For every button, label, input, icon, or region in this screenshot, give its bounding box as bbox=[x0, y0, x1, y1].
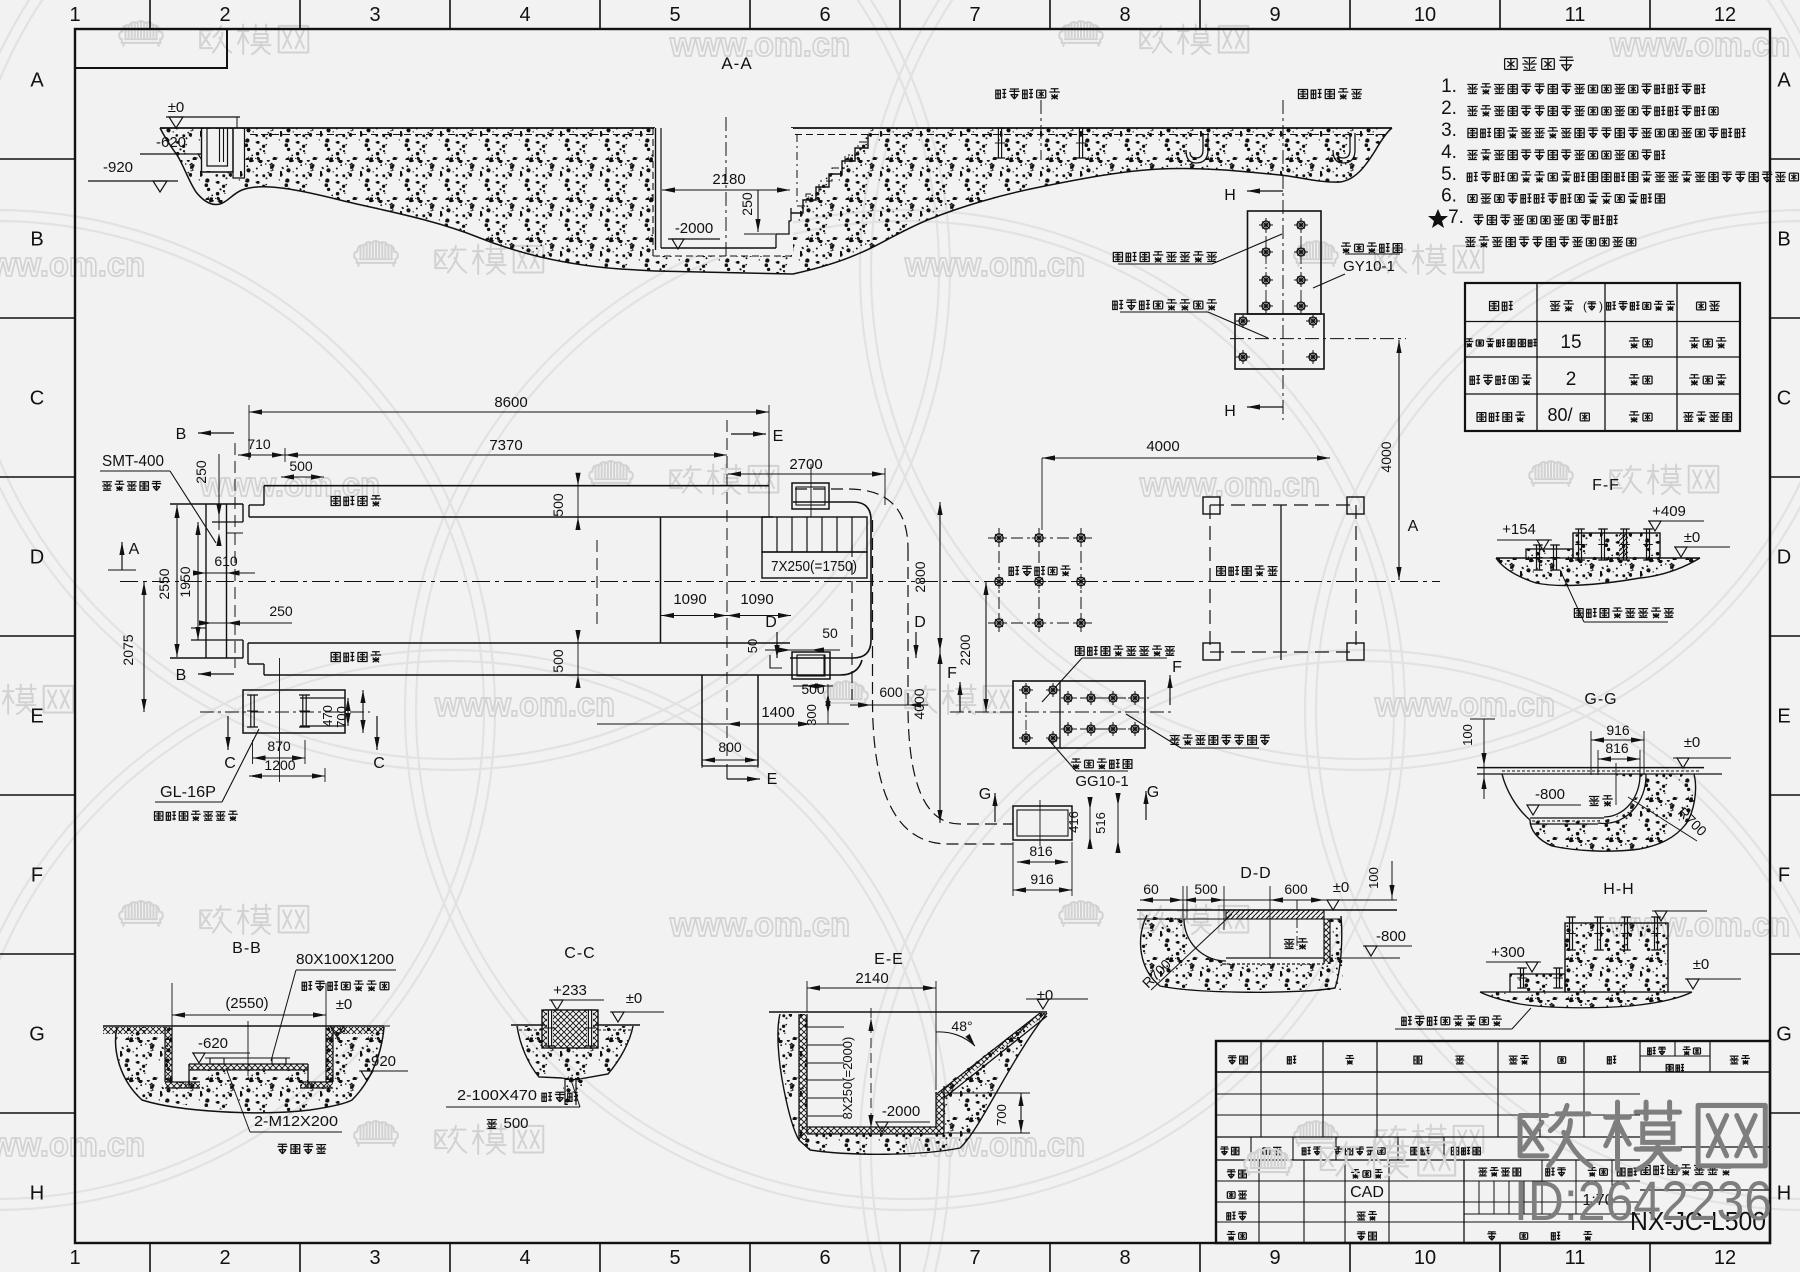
load table bbox=[1465, 283, 1740, 431]
svg-text:916: 916 bbox=[1030, 871, 1054, 887]
C-C crosshatch block bbox=[542, 1010, 598, 1048]
svg-text:±0: ±0 bbox=[1684, 529, 1701, 546]
svg-text:7: 7 bbox=[969, 4, 980, 26]
label dust collector (plan) bbox=[1217, 567, 1226, 576]
svg-text:500: 500 bbox=[550, 649, 566, 673]
svg-text:500: 500 bbox=[801, 681, 825, 697]
svg-text:-620: -620 bbox=[156, 134, 186, 151]
label blower casing centerline bbox=[1075, 647, 1084, 656]
G-G pit floor bbox=[1530, 817, 1604, 819]
E-E 48 degree arc bbox=[936, 1032, 975, 1046]
svg-text:D-D: D-D bbox=[1240, 865, 1271, 882]
svg-text:5.: 5. bbox=[1441, 164, 1457, 185]
E-E cut dashed aux bbox=[596, 540, 598, 628]
svg-text:2-M12X200: 2-M12X200 bbox=[254, 1113, 338, 1130]
svg-text:800: 800 bbox=[718, 739, 742, 755]
svg-text:A: A bbox=[30, 70, 44, 92]
C-C hole neck bbox=[564, 1078, 566, 1105]
svg-text:1: 1 bbox=[69, 4, 80, 26]
svg-text:2700: 2700 bbox=[789, 456, 822, 473]
E-E soil bottom bbox=[799, 1133, 960, 1154]
F section markers bbox=[959, 682, 961, 712]
svg-text:E-E: E-E bbox=[874, 951, 904, 968]
G section markers bbox=[994, 793, 996, 822]
svg-text:2800: 2800 bbox=[912, 561, 928, 592]
svg-text:1200: 1200 bbox=[264, 757, 295, 773]
svg-text:+233: +233 bbox=[553, 982, 587, 999]
upper strip foundation bbox=[264, 485, 769, 487]
pit staircase bbox=[791, 134, 868, 213]
B-B pads on block bbox=[210, 1058, 224, 1064]
svg-text:-800: -800 bbox=[1535, 786, 1565, 803]
svg-text:2075: 2075 bbox=[120, 634, 136, 665]
label blower main shaft centerline bbox=[1170, 736, 1180, 745]
svg-text:±0: ±0 bbox=[168, 99, 185, 116]
svg-text:B: B bbox=[176, 426, 187, 443]
svg-text:48°: 48° bbox=[951, 1018, 972, 1034]
svg-text:GG10-1: GG10-1 bbox=[1075, 773, 1128, 790]
svg-text:8X250(=2000): 8X250(=2000) bbox=[840, 1037, 855, 1120]
H-H top level bbox=[1652, 910, 1707, 912]
section A-A soil mass bbox=[160, 128, 653, 271]
svg-text:G: G bbox=[29, 1024, 45, 1046]
coal feeder foundation block bbox=[170, 503, 243, 505]
duct dashed vertical outer bbox=[873, 520, 1014, 844]
svg-text:6: 6 bbox=[819, 4, 830, 26]
svg-text:www.om.cn: www.om.cn bbox=[904, 246, 1085, 284]
svg-text:600: 600 bbox=[1284, 881, 1308, 897]
svg-text:7: 7 bbox=[969, 1247, 980, 1269]
svg-text:C: C bbox=[224, 755, 236, 772]
slag outlet box bbox=[792, 483, 829, 509]
induced fan upper foundation rect bbox=[1248, 211, 1322, 314]
svg-text:816: 816 bbox=[1029, 843, 1053, 859]
central pit (A-A) bbox=[654, 128, 793, 255]
svg-text:2180: 2180 bbox=[712, 171, 745, 188]
duct dashed vertical inner bbox=[908, 549, 1013, 824]
svg-text:3.: 3. bbox=[1441, 120, 1457, 141]
svg-text:4: 4 bbox=[519, 1247, 530, 1269]
dust collector footings bbox=[1203, 497, 1220, 514]
buried dashed line bbox=[250, 134, 653, 136]
svg-text:2550: 2550 bbox=[156, 568, 172, 599]
F-F ground line bbox=[1496, 557, 1526, 559]
D-D outline bbox=[1141, 915, 1342, 992]
F-F soil mass bbox=[1496, 533, 1700, 585]
svg-text:50: 50 bbox=[745, 639, 760, 653]
faint watermark near title block bbox=[1244, 1148, 1291, 1176]
F-F label blower casing centerline bbox=[1574, 609, 1583, 618]
blower centerline bbox=[950, 711, 1175, 713]
D-D soil right bbox=[1330, 919, 1343, 985]
svg-text:8: 8 bbox=[1119, 4, 1130, 26]
svg-text:4000: 4000 bbox=[1378, 441, 1394, 472]
B section cut dashed bbox=[234, 443, 236, 668]
svg-text:-800: -800 bbox=[1376, 928, 1406, 945]
svg-text:-620: -620 bbox=[198, 1035, 228, 1052]
H section cut line bbox=[1282, 100, 1284, 420]
svg-text:F: F bbox=[947, 665, 957, 682]
svg-text:610: 610 bbox=[214, 553, 238, 569]
coal feeder pit (left) bbox=[202, 129, 244, 171]
svg-text:2.: 2. bbox=[1441, 98, 1457, 119]
svg-text:4: 4 bbox=[519, 4, 530, 26]
svg-text:300: 300 bbox=[804, 704, 819, 726]
site watermark dark bbox=[1520, 1105, 1591, 1165]
svg-text:12: 12 bbox=[1714, 4, 1736, 26]
svg-text:+154: +154 bbox=[1502, 521, 1536, 538]
svg-text:A-A: A-A bbox=[721, 54, 752, 73]
svg-text:5: 5 bbox=[669, 1247, 680, 1269]
G-G center mark bbox=[1615, 763, 1617, 805]
label air preheater foundation bbox=[996, 89, 1006, 98]
svg-text:E: E bbox=[773, 428, 784, 445]
svg-text:www.om.cn: www.om.cn bbox=[0, 1126, 145, 1164]
slag machine pit (plan) bbox=[792, 652, 830, 679]
svg-text:±0: ±0 bbox=[1693, 956, 1710, 973]
B-B soil right bbox=[308, 1027, 384, 1100]
svg-text:10: 10 bbox=[1414, 1247, 1436, 1269]
label dust collector foundation bbox=[1298, 89, 1307, 98]
svg-text:B: B bbox=[1777, 229, 1790, 251]
svg-text:GL-16P: GL-16P bbox=[160, 784, 216, 801]
D-D scallop under top line left bbox=[1137, 918, 1226, 920]
technical requirements title bbox=[1505, 59, 1518, 70]
label strip foundation (lower) bbox=[331, 652, 340, 661]
svg-text:80/: 80/ bbox=[1547, 405, 1572, 425]
pit protrusion bbox=[701, 675, 703, 766]
svg-text:1090: 1090 bbox=[673, 591, 706, 608]
svg-text:C: C bbox=[30, 388, 44, 410]
svg-text:1: 1 bbox=[69, 1247, 80, 1269]
svg-text:C: C bbox=[373, 755, 385, 772]
svg-text:2: 2 bbox=[1566, 369, 1577, 390]
svg-text:2200: 2200 bbox=[957, 634, 973, 665]
svg-text:2-100X470: 2-100X470 bbox=[457, 1087, 537, 1104]
svg-text:G: G bbox=[1776, 1024, 1792, 1046]
svg-text:www.om.cn: www.om.cn bbox=[669, 26, 850, 64]
svg-text:100: 100 bbox=[1460, 724, 1475, 746]
D-D soil left mass bbox=[1141, 915, 1230, 990]
svg-text:60: 60 bbox=[1143, 881, 1159, 897]
svg-text:1090: 1090 bbox=[740, 591, 773, 608]
svg-text:H: H bbox=[1224, 403, 1236, 420]
svg-text:H: H bbox=[30, 1183, 44, 1205]
svg-text:700: 700 bbox=[334, 706, 349, 728]
D-D duct label bbox=[1284, 939, 1294, 948]
anchor bolts air-preheater bbox=[997, 128, 999, 158]
label air preheater (plan) bbox=[1009, 567, 1019, 576]
vertical aux line bbox=[279, 658, 281, 782]
svg-text:816: 816 bbox=[1605, 740, 1629, 756]
svg-text:250: 250 bbox=[739, 192, 755, 216]
E section cut dashed bbox=[726, 420, 728, 762]
induced fan lower foundation rect bbox=[1235, 314, 1324, 369]
svg-text:5: 5 bbox=[669, 4, 680, 26]
title block bbox=[1216, 1041, 1770, 1243]
D-D fillet R700 bbox=[1184, 919, 1226, 961]
A section marker left bbox=[121, 542, 123, 570]
ground top line bbox=[160, 127, 655, 129]
plan: main centerline bbox=[120, 581, 1440, 583]
svg-text:+409: +409 bbox=[1652, 503, 1686, 520]
svg-text:470: 470 bbox=[320, 705, 335, 727]
svg-text:E: E bbox=[1777, 706, 1790, 728]
svg-text:8: 8 bbox=[1119, 1247, 1130, 1269]
H-H bolts bbox=[1569, 917, 1571, 950]
svg-text:E: E bbox=[767, 771, 778, 788]
B-B outlines bbox=[116, 1027, 384, 1113]
B-B center mark bbox=[247, 1021, 249, 1076]
svg-text:710: 710 bbox=[247, 436, 271, 452]
svg-text:±0: ±0 bbox=[336, 996, 353, 1013]
svg-text:9: 9 bbox=[1269, 1247, 1280, 1269]
D-D soil bottom bbox=[1230, 964, 1341, 990]
C-C soil outline bbox=[517, 1026, 633, 1080]
label fan casing centerline bbox=[1113, 300, 1123, 309]
E section marker bottom bbox=[726, 764, 728, 779]
svg-text:-920: -920 bbox=[103, 159, 133, 176]
duct dashed bend upper bbox=[795, 489, 908, 549]
svg-text:F: F bbox=[1172, 659, 1182, 676]
svg-text:3: 3 bbox=[369, 1247, 380, 1269]
furnace block left edge bbox=[660, 517, 662, 643]
svg-text:8600: 8600 bbox=[494, 394, 527, 411]
svg-text:6: 6 bbox=[819, 1247, 830, 1269]
F-F left pedestal bbox=[1526, 549, 1573, 558]
svg-text:±0: ±0 bbox=[1037, 987, 1054, 1004]
E-E outlines bbox=[778, 1013, 1047, 1154]
E section marker top bbox=[731, 433, 766, 435]
C section markers bbox=[227, 716, 229, 750]
svg-text:±0: ±0 bbox=[626, 990, 643, 1007]
pit centerline bbox=[725, 117, 727, 261]
D-D top hatched slab bbox=[1226, 910, 1324, 919]
svg-text:F-F: F-F bbox=[1592, 477, 1620, 494]
svg-text:B: B bbox=[176, 667, 187, 684]
svg-text:-2000: -2000 bbox=[882, 1103, 920, 1120]
J-bolts dust collector bbox=[1190, 133, 1203, 158]
svg-text:E: E bbox=[30, 706, 43, 728]
G-G R700 leader bbox=[1628, 797, 1697, 841]
reducer anchor plate bbox=[243, 690, 345, 733]
svg-text:www.om.cn: www.om.cn bbox=[1609, 26, 1790, 64]
duct outlet box bbox=[1013, 806, 1072, 840]
label blower foundation GG10-1 bbox=[1071, 759, 1081, 769]
C-C ground line bbox=[511, 1024, 545, 1026]
D-D R700 leader bbox=[1151, 914, 1232, 990]
H-H label fan casing centerline bbox=[1402, 1017, 1412, 1026]
furnace block right wall (rounded C) bbox=[790, 502, 871, 658]
svg-text:2: 2 bbox=[219, 4, 230, 26]
svg-text:GY10-1: GY10-1 bbox=[1343, 258, 1395, 275]
fan centerline horizontal bbox=[1230, 338, 1406, 340]
svg-text:±0: ±0 bbox=[1333, 879, 1350, 896]
H-H main block bbox=[1565, 923, 1668, 992]
svg-text:ID:2642236: ID:2642236 bbox=[1514, 1169, 1772, 1232]
svg-text:916: 916 bbox=[1606, 722, 1630, 738]
F-F main block bbox=[1573, 533, 1660, 558]
E-E ground line bbox=[769, 1011, 1047, 1013]
B-B soil left bbox=[103, 1027, 190, 1100]
duct dashed aux vertical bbox=[851, 545, 853, 700]
svg-text:): ) bbox=[1599, 299, 1603, 313]
svg-text:4000: 4000 bbox=[1146, 438, 1179, 455]
svg-text:1950: 1950 bbox=[177, 566, 193, 597]
grate 7X250 grid bbox=[762, 517, 867, 552]
H-H left block bbox=[1510, 974, 1565, 992]
svg-text:1400: 1400 bbox=[761, 704, 794, 721]
svg-text:250: 250 bbox=[269, 603, 293, 619]
svg-text:±0: ±0 bbox=[1684, 734, 1701, 751]
svg-text:500: 500 bbox=[289, 458, 313, 474]
svg-text:A: A bbox=[129, 541, 140, 558]
svg-text:D: D bbox=[1777, 547, 1791, 569]
svg-text:C-C: C-C bbox=[564, 945, 595, 962]
svg-text:11: 11 bbox=[1565, 1247, 1586, 1269]
svg-text:D: D bbox=[765, 614, 777, 631]
E-E pit wall bands bbox=[799, 1014, 807, 1140]
svg-text:SMT-400: SMT-400 bbox=[102, 453, 164, 470]
svg-text:H: H bbox=[1777, 1183, 1791, 1205]
dust collector dashed square bbox=[1209, 505, 1211, 652]
svg-text:www.om.cn: www.om.cn bbox=[0, 246, 145, 284]
svg-text:50: 50 bbox=[822, 625, 838, 641]
svg-text:4.: 4. bbox=[1441, 142, 1457, 163]
svg-text:7.: 7. bbox=[1448, 207, 1464, 228]
svg-text:D: D bbox=[30, 547, 44, 569]
svg-text:G: G bbox=[979, 786, 991, 803]
svg-text:www.om.cn: www.om.cn bbox=[669, 906, 850, 944]
svg-text:9: 9 bbox=[1269, 4, 1280, 26]
B-B pit walls crosshatch bbox=[103, 1027, 172, 1034]
svg-text:(2550): (2550) bbox=[225, 995, 268, 1012]
G-G outline bbox=[1502, 774, 1696, 851]
G-G soil mass bbox=[1530, 774, 1696, 851]
E-E ladder rungs bbox=[807, 1026, 844, 1028]
C-C bolts bbox=[547, 1010, 553, 1046]
svg-text:500: 500 bbox=[503, 1115, 528, 1132]
svg-text:B: B bbox=[30, 229, 43, 251]
label fan foundation GY10-1 bbox=[1341, 243, 1351, 253]
blower foundation rect bbox=[1013, 681, 1145, 748]
C-C label depth 500 bbox=[487, 1120, 497, 1129]
G-G duct arc R700 bbox=[1604, 774, 1640, 817]
F-F outline bbox=[1496, 558, 1700, 585]
svg-text:H: H bbox=[1224, 187, 1236, 204]
G-G duct label bbox=[1589, 796, 1599, 805]
svg-text:7X250(=1750): 7X250(=1750) bbox=[771, 559, 857, 575]
svg-text:700: 700 bbox=[994, 1104, 1009, 1126]
svg-text:G: G bbox=[1147, 784, 1159, 801]
svg-text:12: 12 bbox=[1714, 1247, 1736, 1269]
svg-text:+300: +300 bbox=[1491, 944, 1525, 961]
lower strip foundation bbox=[248, 642, 790, 644]
svg-text:250: 250 bbox=[193, 460, 209, 484]
D-D floor band bbox=[1226, 957, 1324, 959]
B-B ground line bbox=[103, 1025, 384, 1027]
G-G ground lines bbox=[1477, 767, 1704, 769]
svg-text:100: 100 bbox=[1366, 867, 1381, 889]
svg-text:600: 600 bbox=[879, 684, 903, 700]
svg-text:15: 15 bbox=[1560, 332, 1581, 353]
svg-text:B-B: B-B bbox=[232, 940, 262, 957]
E-E soil right bbox=[936, 1013, 1047, 1148]
svg-text:500: 500 bbox=[550, 493, 566, 517]
svg-text:11: 11 bbox=[1565, 4, 1586, 26]
svg-text:416: 416 bbox=[1066, 811, 1081, 833]
svg-text:C: C bbox=[1777, 388, 1791, 410]
label strip foundation (upper) bbox=[331, 496, 340, 505]
svg-text:(: ( bbox=[1583, 299, 1587, 313]
svg-text:3: 3 bbox=[369, 4, 380, 26]
svg-text:CAD: CAD bbox=[1350, 1184, 1384, 1201]
label fan main shaft centerline bbox=[1113, 252, 1122, 261]
H-H soil under bbox=[1480, 992, 1692, 1008]
svg-text:80X100X1200: 80X100X1200 bbox=[296, 951, 394, 968]
svg-text:516: 516 bbox=[1093, 812, 1108, 834]
D-D ground lines bbox=[1137, 909, 1397, 911]
reducer centerline bbox=[200, 711, 370, 713]
svg-text:1.: 1. bbox=[1441, 76, 1457, 97]
svg-text:D: D bbox=[914, 614, 926, 631]
svg-text:500: 500 bbox=[1194, 881, 1218, 897]
svg-text:A: A bbox=[1777, 70, 1791, 92]
E-E slope 48deg bbox=[938, 1013, 1047, 1095]
C-C soil mass bbox=[517, 1026, 633, 1105]
svg-text:2140: 2140 bbox=[855, 970, 888, 987]
svg-text:F: F bbox=[1778, 865, 1790, 887]
svg-text:www.om.cn: www.om.cn bbox=[1139, 466, 1320, 504]
svg-text:A: A bbox=[1408, 518, 1419, 535]
svg-text:6.: 6. bbox=[1441, 186, 1457, 207]
svg-text:F: F bbox=[31, 865, 43, 887]
svg-text:7370: 7370 bbox=[489, 437, 522, 454]
H-H ground line bbox=[1480, 991, 1510, 993]
svg-text:H-H: H-H bbox=[1603, 881, 1634, 898]
svg-text:www.om.cn: www.om.cn bbox=[1374, 686, 1555, 724]
svg-text:2: 2 bbox=[219, 1247, 230, 1269]
air preheater foundation grid bbox=[998, 528, 1000, 633]
B-B center block bbox=[142, 1070, 352, 1112]
D-D right wall bbox=[1324, 919, 1330, 964]
svg-text:-920: -920 bbox=[366, 1053, 396, 1070]
svg-text:www.om.cn: www.om.cn bbox=[434, 686, 615, 724]
svg-text:G-G: G-G bbox=[1584, 691, 1617, 708]
svg-text:10: 10 bbox=[1414, 4, 1436, 26]
svg-text:-2000: -2000 bbox=[675, 220, 713, 237]
E-E soil left wall bbox=[778, 1014, 807, 1140]
